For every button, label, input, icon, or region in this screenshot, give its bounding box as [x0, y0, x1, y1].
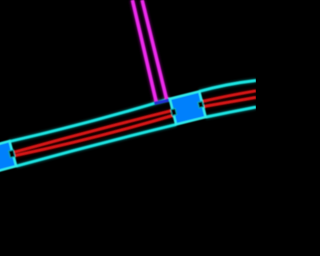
station A port notch: [8, 150, 15, 158]
station B west port notch: [171, 108, 177, 115]
track band: right segment bottom border: [206, 107, 256, 117]
track band: right segment top border: [199, 81, 256, 92]
magenta line 2: [142, 0, 167, 100]
red track 2 right: [203, 97, 256, 106]
track band: left segment bottom border: [16, 125, 176, 167]
red track 1 left: [13, 111, 172, 153]
track band: left segment top border: [10, 99, 170, 142]
station B east port notch: [198, 101, 204, 108]
red track 2 left: [14, 116, 173, 156]
red track 1 right: [202, 91, 256, 102]
station B (junction): [170, 91, 206, 124]
glow layer: [10, 0, 257, 166]
magenta line 1: [132, 0, 156, 101]
station A (left, clipped): [0, 141, 16, 174]
dark blue bar (magenta line terminus): [154, 100, 169, 103]
